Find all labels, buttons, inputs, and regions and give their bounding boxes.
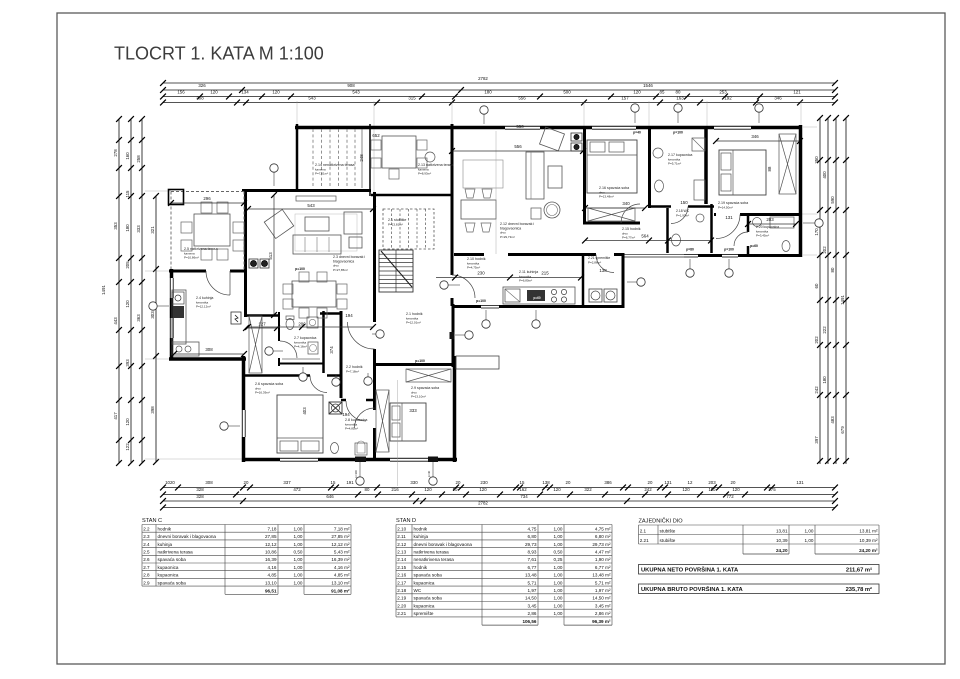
svg-text:2.11: 2.11 xyxy=(397,534,406,539)
svg-text:191: 191 xyxy=(346,480,354,485)
svg-text:P=4,75m²: P=4,75m² xyxy=(467,266,480,270)
svg-text:6,77 m²: 6,77 m² xyxy=(595,565,611,570)
living 2.12 sofa xyxy=(526,152,544,199)
svg-text:328: 328 xyxy=(196,487,204,492)
bedroom 2.16 bottom wall xyxy=(583,222,640,225)
svg-text:14,50 m²: 14,50 m² xyxy=(592,596,611,601)
svg-text:2.18: 2.18 xyxy=(397,588,406,593)
living 2.3 coffee table xyxy=(305,217,329,231)
svg-text:24,20: 24,20 xyxy=(776,548,788,553)
bedroom 2.19 wardrobe xyxy=(779,134,796,194)
stair hall / stan D wall xyxy=(451,197,454,275)
bath 2.17 fixtures xyxy=(653,148,663,158)
svg-text:2.17: 2.17 xyxy=(397,580,406,585)
svg-text:652: 652 xyxy=(372,133,380,138)
svg-text:230: 230 xyxy=(480,480,488,485)
svg-text:kupaonica: kupaonica xyxy=(414,603,435,608)
bottom exterior wall xyxy=(243,458,457,462)
stan D entrance door arc xyxy=(452,275,475,298)
svg-text:spavaća soba: spavaća soba xyxy=(414,573,443,578)
svg-text:UKUPNA BRUTO POVRŠINA 1. KATA: UKUPNA BRUTO POVRŠINA 1. KATA xyxy=(641,585,743,593)
svg-text:kupaonica: kupaonica xyxy=(158,565,179,570)
svg-text:513: 513 xyxy=(268,252,273,260)
svg-text:170: 170 xyxy=(814,228,819,236)
bath 2.7 box xyxy=(278,312,280,341)
exterior top wall xyxy=(295,126,802,130)
svg-text:2.21: 2.21 xyxy=(397,611,406,616)
svg-text:150: 150 xyxy=(680,200,688,205)
living 2.3 left wall xyxy=(244,189,247,317)
svg-text:205: 205 xyxy=(125,261,130,269)
closet hatched left xyxy=(249,316,262,373)
svg-text:337: 337 xyxy=(283,480,291,485)
spremiste left wall xyxy=(582,256,585,306)
svg-text:1,00: 1,00 xyxy=(554,534,563,539)
svg-text:194: 194 xyxy=(345,313,353,318)
bedroom 2.9 wardrobe xyxy=(376,390,389,452)
stan C entrance door arc xyxy=(348,322,375,349)
svg-text:10,86: 10,86 xyxy=(265,550,277,555)
exterior landing xyxy=(456,356,499,369)
kitchen 2.11 bottom wall xyxy=(454,305,623,308)
svg-text:P=14,50m²: P=14,50m² xyxy=(718,205,733,209)
svg-text:P=27,85m²: P=27,85m² xyxy=(333,268,348,272)
svg-text:24,20 m²: 24,20 m² xyxy=(859,548,878,553)
svg-text:543: 543 xyxy=(308,96,316,101)
svg-text:120: 120 xyxy=(210,90,218,95)
svg-text:350: 350 xyxy=(814,156,819,164)
svg-text:1,00: 1,00 xyxy=(294,573,303,578)
svg-text:29,73: 29,73 xyxy=(525,542,537,547)
wall stove xyxy=(249,259,258,268)
svg-text:P=3,45m²: P=3,45m² xyxy=(756,234,769,238)
svg-text:1,00: 1,00 xyxy=(554,542,563,547)
svg-text:386: 386 xyxy=(604,480,612,485)
svg-text:1,00: 1,00 xyxy=(294,565,303,570)
living 2.3 rug xyxy=(295,214,357,251)
svg-text:322: 322 xyxy=(584,487,592,492)
svg-text:4,16 m²: 4,16 m² xyxy=(334,565,350,570)
stairs 2.1 treads xyxy=(379,250,413,292)
svg-text:160: 160 xyxy=(125,152,130,160)
svg-text:106,56: 106,56 xyxy=(522,619,536,624)
dim 543 living C xyxy=(248,208,373,210)
svg-text:120: 120 xyxy=(682,487,690,492)
svg-text:120: 120 xyxy=(732,487,740,492)
svg-text:2.8: 2.8 xyxy=(143,573,150,578)
kitchen 2.11 counter xyxy=(503,287,575,304)
svg-text:kuhinja: kuhinja xyxy=(414,534,429,539)
svg-text:12,12: 12,12 xyxy=(265,542,277,547)
svg-text:115: 115 xyxy=(125,190,130,198)
dim 346 bedroom 2.19 xyxy=(716,140,800,142)
svg-text:1020: 1020 xyxy=(165,480,175,485)
bedroom 2.19 bottom wall / bath 2.20 top xyxy=(714,213,800,216)
vent shaft xyxy=(329,402,342,414)
svg-text:180: 180 xyxy=(484,90,492,95)
bath 2.8 top wall xyxy=(341,399,346,402)
svg-text:1491: 1491 xyxy=(101,285,106,295)
svg-text:2782: 2782 xyxy=(478,501,488,506)
svg-text:13,48: 13,48 xyxy=(525,573,537,578)
svg-text:2,86: 2,86 xyxy=(528,611,537,616)
living 2.3 top wall xyxy=(242,189,371,192)
bedroom 2.16 bed xyxy=(587,140,637,193)
dim 230 hall D xyxy=(436,277,581,279)
svg-text:29,73 m²: 29,73 m² xyxy=(592,542,611,547)
svg-text:kupaonica: kupaonica xyxy=(158,573,179,578)
svg-text:403: 403 xyxy=(302,407,307,415)
svg-text:p=60: p=60 xyxy=(533,296,541,300)
svg-text:772: 772 xyxy=(726,494,734,499)
svg-text:2.19: 2.19 xyxy=(397,596,406,601)
svg-text:20: 20 xyxy=(648,480,653,485)
svg-text:2.5: 2.5 xyxy=(143,550,150,555)
svg-text:13,81 m²: 13,81 m² xyxy=(859,529,878,534)
svg-text:308: 308 xyxy=(205,480,213,485)
svg-text:spavaća soba: spavaća soba xyxy=(414,596,443,601)
svg-text:13,48 m²: 13,48 m² xyxy=(592,573,611,578)
bedroom 2.19 bed xyxy=(719,150,766,195)
svg-text:308: 308 xyxy=(205,347,213,352)
svg-text:2.16: 2.16 xyxy=(397,573,406,578)
top dimension chains xyxy=(163,82,835,84)
svg-text:353: 353 xyxy=(113,222,118,230)
svg-text:397: 397 xyxy=(814,436,819,444)
living 2.12 stool xyxy=(544,202,560,218)
svg-text:1,00: 1,00 xyxy=(554,588,563,593)
svg-text:13,81: 13,81 xyxy=(776,529,788,534)
right wing bottom wall xyxy=(623,254,802,257)
bedroom 2.9 bed xyxy=(390,403,426,441)
svg-text:14,50: 14,50 xyxy=(525,596,537,601)
svg-text:dnevni boravak i blagovaona: dnevni boravak i blagovaona xyxy=(414,542,473,547)
corridor top wall (living 2.12 bottom) xyxy=(454,253,484,256)
svg-text:7,18: 7,18 xyxy=(268,526,277,531)
svg-text:P=13,81m²: P=13,81m² xyxy=(388,222,403,226)
bedroom 2.16 door arc xyxy=(621,204,640,223)
svg-text:P=7,18m²: P=7,18m² xyxy=(346,369,359,373)
terrace pillar xyxy=(169,190,184,205)
stan C right wall xyxy=(453,356,457,462)
svg-text:417: 417 xyxy=(113,412,118,420)
svg-text:340: 340 xyxy=(622,201,630,206)
svg-text:211,67 m²: 211,67 m² xyxy=(846,567,872,574)
svg-text:4,75: 4,75 xyxy=(528,526,537,531)
kitchen 2.4 counter xyxy=(172,290,186,344)
spremiste right wall xyxy=(622,253,625,308)
svg-text:spavaća soba: spavaća soba xyxy=(158,580,187,585)
svg-text:564: 564 xyxy=(641,234,649,239)
bath 2.20 left wall xyxy=(747,214,750,232)
svg-text:P=2,86m²: P=2,86m² xyxy=(588,260,601,264)
spremiste door arc xyxy=(596,255,614,273)
svg-text:120: 120 xyxy=(633,90,641,95)
svg-text:p=100: p=100 xyxy=(673,131,683,135)
bedroom 2.9 wardrobe top xyxy=(406,369,451,382)
svg-text:88: 88 xyxy=(767,166,772,171)
svg-text:P=29,73m²: P=29,73m² xyxy=(500,235,515,239)
svg-text:27,85: 27,85 xyxy=(265,534,277,539)
UKUPNA BRUTO box xyxy=(639,584,880,594)
WC 2.18 walls xyxy=(666,208,669,253)
svg-text:120: 120 xyxy=(479,487,487,492)
svg-text:UKUPNA NETO POVRŠINA 1. KATA: UKUPNA NETO POVRŠINA 1. KATA xyxy=(641,566,739,574)
svg-text:120: 120 xyxy=(272,90,280,95)
svg-text:1546: 1546 xyxy=(643,83,653,88)
svg-text:1,00: 1,00 xyxy=(805,538,814,543)
stair hall right wall lower xyxy=(452,304,455,367)
svg-text:216: 216 xyxy=(391,487,399,492)
living bottom wall stan C xyxy=(244,314,280,317)
svg-text:2.2: 2.2 xyxy=(143,526,150,531)
svg-text:550: 550 xyxy=(516,124,524,129)
svg-text:2.21: 2.21 xyxy=(640,538,649,543)
svg-text:20: 20 xyxy=(731,480,736,485)
svg-text:1,00: 1,00 xyxy=(554,526,563,531)
svg-text:hodnik: hodnik xyxy=(158,526,172,531)
svg-text:346: 346 xyxy=(774,96,782,101)
svg-text:248: 248 xyxy=(359,154,364,162)
living 2.3 side table xyxy=(349,237,362,248)
door marks bottom wall xyxy=(355,457,366,463)
bedroom 2.16 wardrobe xyxy=(588,208,635,221)
svg-text:333: 333 xyxy=(409,408,417,413)
dim 513 vertical xyxy=(273,195,275,315)
svg-text:556: 556 xyxy=(514,144,522,149)
svg-text:P=6,77m²: P=6,77m² xyxy=(622,236,635,240)
svg-text:natkrivena terasa: natkrivena terasa xyxy=(414,550,450,555)
right dimension chains xyxy=(819,118,821,464)
svg-text:1,00: 1,00 xyxy=(294,534,303,539)
svg-text:163: 163 xyxy=(676,96,684,101)
svg-text:p=80: p=80 xyxy=(686,248,694,252)
spremiste washers xyxy=(589,289,602,302)
svg-text:STAN C: STAN C xyxy=(142,518,162,524)
svg-text:1,00: 1,00 xyxy=(805,529,814,534)
svg-text:2.6: 2.6 xyxy=(143,557,150,562)
svg-text:590: 590 xyxy=(830,196,835,204)
svg-text:253: 253 xyxy=(719,90,727,95)
svg-text:4,16: 4,16 xyxy=(268,565,277,570)
svg-text:1,00: 1,00 xyxy=(554,611,563,616)
svg-text:1,00: 1,00 xyxy=(294,557,303,562)
svg-text:2.20: 2.20 xyxy=(397,603,406,608)
svg-text:278: 278 xyxy=(113,149,118,157)
svg-text:7,18 m²: 7,18 m² xyxy=(334,526,350,531)
svg-text:p=40: p=40 xyxy=(633,131,641,135)
living 2.12 armchair xyxy=(540,127,565,151)
svg-text:374: 374 xyxy=(329,346,334,354)
svg-text:1,00: 1,00 xyxy=(554,580,563,585)
right exterior wall xyxy=(799,125,803,257)
svg-text:203: 203 xyxy=(766,217,774,222)
misc dims xyxy=(246,327,277,329)
dim 308 kitchen xyxy=(174,353,244,355)
svg-text:242: 242 xyxy=(814,386,819,394)
svg-text:dnevni boravak i blagovaona: dnevni boravak i blagovaona xyxy=(158,534,217,539)
svg-text:4,85: 4,85 xyxy=(268,573,277,578)
UKUPNA NETO box xyxy=(639,565,880,575)
svg-text:194: 194 xyxy=(342,412,350,417)
svg-text:p=60: p=60 xyxy=(750,244,758,248)
svg-text:202: 202 xyxy=(822,246,827,254)
bedroom 2.6 door arc xyxy=(310,376,327,393)
svg-text:P=5,71m²: P=5,71m² xyxy=(668,162,681,166)
stair hall bottom wall xyxy=(375,363,455,366)
svg-text:2.7: 2.7 xyxy=(143,565,150,570)
svg-text:91,08 m²: 91,08 m² xyxy=(331,588,350,593)
svg-text:hodnik: hodnik xyxy=(414,526,428,531)
svg-text:138: 138 xyxy=(599,268,607,273)
svg-text:P=12,12m²: P=12,12m² xyxy=(196,305,211,309)
svg-text:308: 308 xyxy=(196,96,204,101)
living 2.3 armchair xyxy=(264,209,293,238)
svg-text:7,61: 7,61 xyxy=(528,557,537,562)
svg-text:STAN D: STAN D xyxy=(396,518,416,524)
svg-text:80: 80 xyxy=(365,487,370,492)
svg-text:85: 85 xyxy=(660,90,665,95)
bottom dimension chains xyxy=(163,487,835,489)
svg-text:215: 215 xyxy=(541,271,549,276)
bottom wing left wall xyxy=(242,356,246,462)
svg-text:120: 120 xyxy=(553,487,561,492)
svg-text:60: 60 xyxy=(814,283,819,288)
svg-text:346: 346 xyxy=(751,134,759,139)
svg-text:WC: WC xyxy=(414,588,422,593)
bath 2.7 door arc xyxy=(280,341,297,358)
svg-text:80: 80 xyxy=(830,267,835,272)
svg-text:1,00: 1,00 xyxy=(294,526,303,531)
svg-text:330: 330 xyxy=(410,480,418,485)
svg-text:131: 131 xyxy=(725,215,733,220)
kitchen door arc xyxy=(206,271,230,295)
svg-text:P=1,97m²: P=1,97m² xyxy=(676,213,689,217)
living 2.12 wall units xyxy=(571,133,582,141)
svg-text:157: 157 xyxy=(621,96,629,101)
kitchen top wall (terrace boundary) xyxy=(169,270,247,273)
bath 2.17 / bedroom 2.19 wall xyxy=(704,126,708,204)
svg-text:363: 363 xyxy=(136,314,141,322)
svg-text:kupaonica: kupaonica xyxy=(414,580,435,585)
svg-text:120: 120 xyxy=(125,418,130,426)
svg-text:500: 500 xyxy=(563,90,571,95)
dim 564 corridor 2.15 xyxy=(585,240,711,242)
svg-text:180: 180 xyxy=(125,224,130,232)
svg-text:120: 120 xyxy=(125,300,130,308)
svg-text:80: 80 xyxy=(676,90,681,95)
svg-text:13,10 m²: 13,10 m² xyxy=(331,580,350,585)
stairs diagonal xyxy=(381,251,412,287)
svg-text:646: 646 xyxy=(326,494,334,499)
svg-text:12,12 m²: 12,12 m² xyxy=(331,542,350,547)
svg-text:4,75 m²: 4,75 m² xyxy=(595,526,611,531)
bedroom 2.6 bed xyxy=(277,395,323,453)
svg-text:20: 20 xyxy=(566,480,571,485)
svg-text:96,51: 96,51 xyxy=(265,588,277,593)
svg-text:1,00: 1,00 xyxy=(554,596,563,601)
living 2.3 armchair 2 xyxy=(344,212,362,234)
svg-text:4,47 m²: 4,47 m² xyxy=(595,550,611,555)
living 2.3 dining table xyxy=(292,281,336,307)
svg-text:6,80: 6,80 xyxy=(528,534,537,539)
svg-text:2.12: 2.12 xyxy=(397,542,406,547)
bath 2.8 fixtures xyxy=(331,443,339,454)
svg-text:P=10,86m²: P=10,86m² xyxy=(184,256,199,260)
terrace 2.13 right wall xyxy=(451,124,454,197)
svg-text:203: 203 xyxy=(708,480,716,485)
svg-text:303: 303 xyxy=(150,311,155,319)
svg-text:2.4: 2.4 xyxy=(143,542,150,547)
svg-text:258: 258 xyxy=(136,155,141,163)
svg-text:nenatkrivena terasa: nenatkrivena terasa xyxy=(414,557,455,562)
svg-text:131: 131 xyxy=(664,480,672,485)
terrace 2.14 pergola dashed lines xyxy=(312,129,314,188)
svg-text:1,00: 1,00 xyxy=(554,573,563,578)
svg-text:2,86 m²: 2,86 m² xyxy=(595,611,611,616)
svg-text:400: 400 xyxy=(822,171,827,179)
svg-text:5,71: 5,71 xyxy=(528,580,537,585)
WC door arc xyxy=(671,207,688,224)
svg-text:ZAJEDNIČKI DIO: ZAJEDNIČKI DIO xyxy=(639,518,684,525)
svg-text:96,39 m²: 96,39 m² xyxy=(592,619,611,624)
svg-text:P=7,61m²: P=7,61m² xyxy=(315,172,328,176)
bath 2.20 door arc xyxy=(734,232,748,246)
svg-text:P=4,85m²: P=4,85m² xyxy=(345,427,358,431)
divider terrace 2.14 / 2.13 xyxy=(369,124,371,196)
svg-text:kuhinja: kuhinja xyxy=(158,542,173,547)
svg-text:10,39 m²: 10,39 m² xyxy=(859,538,878,543)
svg-text:326: 326 xyxy=(198,83,206,88)
svg-text:200: 200 xyxy=(298,322,306,327)
svg-text:natkrivena terasa: natkrivena terasa xyxy=(158,550,194,555)
svg-text:p=100: p=100 xyxy=(476,299,486,303)
svg-text:16,39: 16,39 xyxy=(265,557,277,562)
svg-text:3,45 m²: 3,45 m² xyxy=(595,603,611,608)
svg-text:222: 222 xyxy=(822,326,827,334)
bath 2.8 door arc xyxy=(346,401,366,421)
svg-text:230: 230 xyxy=(477,271,485,276)
svg-text:spremište: spremište xyxy=(414,611,434,616)
stair hall top wall xyxy=(371,194,452,197)
svg-text:2.1: 2.1 xyxy=(640,529,647,534)
svg-text:138: 138 xyxy=(542,480,550,485)
svg-text:121: 121 xyxy=(793,90,801,95)
svg-text:2.3: 2.3 xyxy=(143,534,150,539)
svg-text:1,00: 1,00 xyxy=(554,565,563,570)
svg-text:10,39: 10,39 xyxy=(776,538,788,543)
svg-text:20: 20 xyxy=(456,480,461,485)
svg-text:202: 202 xyxy=(814,336,819,344)
svg-text:10: 10 xyxy=(453,487,458,492)
svg-text:2.9: 2.9 xyxy=(143,580,150,585)
svg-text:6,80 m²: 6,80 m² xyxy=(595,534,611,539)
svg-text:p=100: p=100 xyxy=(415,359,425,363)
living/stair wall xyxy=(373,192,376,322)
svg-text:1,00: 1,00 xyxy=(294,542,303,547)
svg-text:321: 321 xyxy=(150,226,155,234)
svg-text:1491: 1491 xyxy=(840,295,845,305)
svg-text:P=8,93m²: P=8,93m² xyxy=(418,172,431,176)
corridor 2.2 left wall xyxy=(340,311,343,398)
bedroom 2.6 top wall xyxy=(244,374,310,377)
svg-text:127: 127 xyxy=(258,322,266,327)
bath 2.7 fixtures xyxy=(286,319,294,330)
svg-text:4,85 m²: 4,85 m² xyxy=(334,573,350,578)
svg-text:162: 162 xyxy=(519,487,527,492)
svg-text:20: 20 xyxy=(244,480,249,485)
svg-text:315: 315 xyxy=(408,96,416,101)
